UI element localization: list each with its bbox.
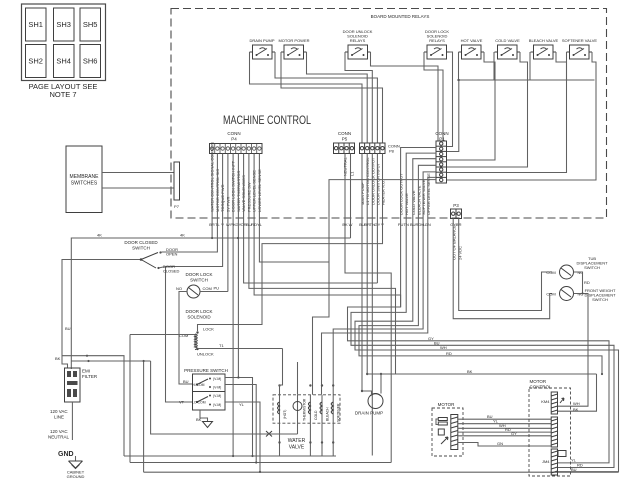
- svg-text:P7: P7: [174, 204, 180, 209]
- svg-text:OUT OF BALANCE: OUT OF BALANCE: [452, 225, 457, 260]
- svg-text:CONN: CONN: [435, 131, 448, 136]
- svg-text:YL: YL: [571, 458, 577, 463]
- svg-text:GY: GY: [511, 431, 517, 436]
- svg-text:BU: BU: [571, 467, 577, 472]
- svg-text:RD: RD: [446, 351, 452, 356]
- svg-text:SOLENOID: SOLENOID: [187, 315, 211, 320]
- svg-text:LINE: LINE: [54, 415, 64, 420]
- svg-text:4K: 4K: [180, 233, 185, 238]
- svg-text:GROUND: GROUND: [67, 474, 85, 479]
- svg-text:BOARD MOUNTED RELAYS: BOARD MOUNTED RELAYS: [371, 14, 430, 19]
- svg-text:(V-M): (V-M): [213, 386, 221, 390]
- svg-text:GND: GND: [58, 451, 74, 458]
- svg-text:120 VAC: 120 VAC: [50, 409, 68, 414]
- svg-text:SWITCH: SWITCH: [592, 297, 608, 302]
- svg-text:SWITCH: SWITCH: [132, 246, 150, 251]
- svg-text:SWITCH: SWITCH: [584, 265, 600, 270]
- svg-text:BLEACH: BLEACH: [326, 407, 330, 421]
- svg-text:CONN: CONN: [227, 131, 240, 136]
- svg-text:DRAIN PUMP: DRAIN PUMP: [249, 38, 274, 43]
- svg-text:PU: PU: [214, 286, 220, 291]
- svg-text:BU: BU: [65, 326, 71, 331]
- svg-text:SH4: SH4: [56, 57, 71, 66]
- svg-text:WH: WH: [573, 401, 580, 406]
- svg-text:BU: BU: [487, 414, 493, 419]
- svg-text:EMI: EMI: [82, 369, 90, 374]
- svg-text:KM4: KM4: [541, 399, 550, 404]
- svg-text:4K: 4K: [97, 233, 102, 238]
- svg-text:FILTER: FILTER: [82, 374, 98, 379]
- svg-text:(V-M): (V-M): [213, 403, 221, 407]
- svg-text:WH: WH: [440, 345, 447, 350]
- svg-text:T1: T1: [219, 343, 224, 348]
- svg-text:120 VAC: 120 VAC: [50, 429, 68, 434]
- svg-text:UNLOCK: UNLOCK: [197, 352, 214, 357]
- svg-text:RD: RD: [584, 280, 590, 285]
- svg-text:COM: COM: [546, 270, 555, 275]
- svg-text:NEUTRAL: NEUTRAL: [48, 435, 70, 440]
- svg-text:JM4: JM4: [542, 459, 550, 464]
- svg-text:YL: YL: [493, 419, 499, 424]
- svg-text:DOOR LOCK: DOOR LOCK: [185, 309, 212, 314]
- svg-text:SOFTENER VALVE: SOFTENER VALVE: [562, 38, 598, 43]
- svg-text:BLEACH VALVE: BLEACH VALVE: [529, 38, 559, 43]
- svg-text:MOTOR: MOTOR: [530, 379, 547, 384]
- svg-text:RD: RD: [577, 463, 583, 468]
- svg-text:P3: P3: [453, 203, 459, 208]
- svg-text:SH1: SH1: [28, 20, 43, 29]
- svg-text:COM: COM: [546, 292, 555, 297]
- svg-text:P5: P5: [342, 137, 348, 142]
- svg-text:PRESSURE SWITCH: PRESSURE SWITCH: [184, 368, 228, 373]
- svg-text:SH2: SH2: [28, 57, 43, 66]
- svg-text:BU: BU: [183, 379, 189, 384]
- svg-text:BK: BK: [55, 356, 61, 361]
- svg-text:VT: VT: [179, 400, 185, 405]
- svg-text:DRAIN PUMP: DRAIN PUMP: [355, 411, 383, 416]
- svg-text:COLD VALVE: COLD VALVE: [495, 38, 520, 43]
- svg-text:RD: RD: [505, 427, 511, 432]
- svg-text:(HOT): (HOT): [283, 410, 287, 419]
- svg-text:SH3: SH3: [56, 20, 71, 29]
- svg-text:COM: COM: [203, 286, 212, 291]
- svg-text:MOTOR: MOTOR: [438, 402, 455, 407]
- svg-text:CONN: CONN: [338, 131, 351, 136]
- svg-text:BK: BK: [196, 417, 202, 422]
- svg-text:P8: P8: [389, 149, 395, 154]
- svg-text:(V-M): (V-M): [213, 377, 221, 381]
- svg-text:DOOR CLOSED: DOOR CLOSED: [124, 240, 158, 245]
- svg-text:VALVE: VALVE: [289, 445, 305, 451]
- svg-text:SWITCH: SWITCH: [190, 278, 208, 283]
- svg-text:HOT VALVE: HOT VALVE: [461, 38, 483, 43]
- svg-text:RELAYS: RELAYS: [350, 38, 366, 43]
- svg-text:NO: NO: [176, 286, 182, 291]
- svg-text:SH5: SH5: [83, 20, 98, 29]
- svg-text:OPEN: OPEN: [166, 252, 177, 257]
- svg-text:COLD: COLD: [314, 410, 318, 420]
- svg-text:SWITCHES: SWITCHES: [71, 181, 98, 187]
- svg-text:MACHINE CONTROL: MACHINE CONTROL: [223, 115, 311, 127]
- svg-text:SH6: SH6: [83, 57, 98, 66]
- svg-text:MOTOR POWER: MOTOR POWER: [278, 38, 309, 43]
- svg-text:LOCK: LOCK: [203, 327, 214, 332]
- svg-text:RELAYS: RELAYS: [429, 38, 445, 43]
- svg-text:MEMBRANE: MEMBRANE: [70, 174, 100, 180]
- svg-text:BU: BU: [434, 341, 440, 346]
- svg-text:HI-COM: HI-COM: [192, 383, 205, 387]
- svg-text:YL: YL: [239, 402, 245, 407]
- svg-text:COM: COM: [179, 333, 188, 338]
- svg-text:SOFTENER: SOFTENER: [337, 403, 341, 422]
- svg-text:LO-COM: LO-COM: [192, 401, 206, 405]
- svg-text:NOTE 7: NOTE 7: [49, 90, 76, 99]
- svg-text:DOOR LOCK: DOOR LOCK: [185, 272, 212, 277]
- svg-text:THERMISTOR: THERMISTOR: [303, 398, 307, 421]
- svg-text:WATER: WATER: [288, 438, 306, 444]
- svg-text:(V-M): (V-M): [213, 394, 221, 398]
- svg-text:P4: P4: [231, 137, 237, 142]
- svg-text:GN: GN: [497, 441, 503, 446]
- svg-text:BK: BK: [573, 407, 579, 412]
- svg-text:CLOSED: CLOSED: [163, 269, 180, 274]
- svg-text:CONTROL: CONTROL: [530, 385, 552, 390]
- svg-text:BK: BK: [467, 369, 473, 374]
